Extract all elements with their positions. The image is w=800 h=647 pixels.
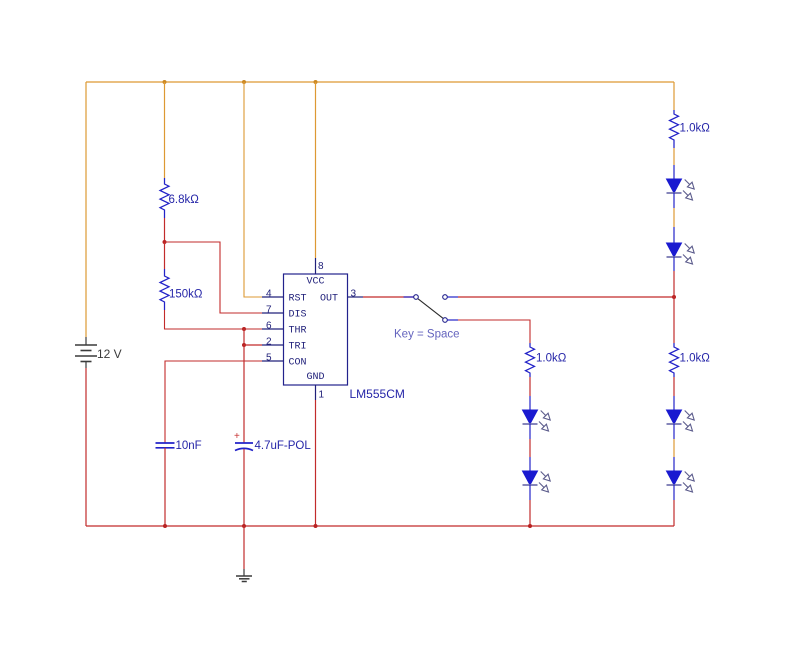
wire: RST branch vertical: [244, 82, 262, 297]
label: 150k&#937;: [169, 289, 203, 301]
wire: switch lower throw to R3 branch: [458, 320, 530, 343]
label: OUT: [320, 294, 338, 305]
wire: battery + to top rail: [85, 82, 87, 337]
junction: ground rail / LED4 chain: [528, 524, 532, 528]
wire: pin 8 branch vertical: [315, 82, 317, 258]
svg-text:+: +: [234, 431, 240, 442]
wire: node A down to R2: [164, 242, 166, 269]
svg-text:2: 2: [266, 337, 272, 348]
svg-text:GND: GND: [306, 372, 324, 383]
label: 4.7uF-POL: [255, 440, 312, 452]
svg-text:CON: CON: [289, 358, 307, 369]
svg-text:LM555CM: LM555CM: [350, 387, 405, 401]
wire: pin 1 to ground rail: [315, 400, 317, 526]
wire: C2 to ground rail: [243, 449, 245, 526]
pin 8 VCC stub: [315, 258, 317, 274]
pin number 6: [266, 321, 272, 332]
wire: LED4 to ground rail: [529, 500, 531, 526]
wire: R1 to node A: [164, 218, 166, 242]
junction: top rail / RST branch: [242, 80, 246, 84]
svg-text:5: 5: [266, 353, 272, 364]
label: VCC: [306, 277, 324, 288]
capacitor C1 10nF: [156, 443, 175, 448]
op-amp/timer U1 LM555CM body: [284, 274, 348, 385]
junction: ground rail / C1: [163, 524, 167, 528]
svg-text:TRI: TRI: [289, 342, 307, 353]
svg-text:150kΩ: 150kΩ: [169, 289, 203, 301]
pin number 5: [266, 353, 272, 364]
junction: THR / C2 branch: [242, 327, 246, 331]
svg-text:1.0kΩ: 1.0kΩ: [536, 353, 567, 365]
ground symbol: [236, 569, 252, 582]
svg-text:VCC: VCC: [306, 277, 324, 288]
svg-text:OUT: OUT: [320, 294, 338, 305]
pin 1 GND stub: [315, 385, 317, 400]
label: Key = Space: [394, 329, 460, 341]
pin 2 TRI stub: [262, 344, 284, 346]
pin number 4: [266, 289, 272, 300]
pin number 2: [266, 337, 272, 348]
LED D5: [667, 396, 695, 439]
battery V1 12V: [75, 337, 97, 368]
resistor R5 1.0k (top right): [670, 110, 679, 148]
svg-text:1.0kΩ: 1.0kΩ: [680, 123, 711, 135]
pin number 1: [319, 390, 325, 401]
label: 1.0k&#937; (R5): [680, 123, 711, 135]
wire: ground rail to ground symbol: [243, 526, 245, 569]
label: 1.0k&#937; (R3): [536, 353, 567, 365]
capacitor C2 4.7uF-POL polarized: [235, 443, 253, 451]
label: + polarity: [234, 431, 240, 442]
svg-text:1.0kΩ: 1.0kΩ: [680, 353, 711, 365]
svg-text:7: 7: [266, 305, 272, 316]
pin 3 OUT stub: [348, 296, 364, 298]
resistor R1 6.8k: [160, 178, 169, 218]
svg-text:10nF: 10nF: [176, 440, 202, 452]
wire: bottom ground rail: [86, 525, 674, 527]
wire: top rail down to R5: [673, 82, 675, 110]
svg-text:4: 4: [266, 289, 272, 300]
junction: ground rail / ground symbol: [242, 524, 246, 528]
wire: LED3 to LED4: [529, 439, 531, 457]
svg-text:8: 8: [318, 261, 324, 272]
pin 5 CON stub: [262, 360, 284, 362]
wire: OUT pin 3 to switch: [363, 296, 414, 298]
wire: THR junction to TRI junction: [243, 329, 245, 345]
wire: R5 to LED1 (orange): [673, 148, 675, 165]
wire: TRI junction down to C2: [243, 345, 245, 443]
wire: junction to R4: [673, 297, 675, 343]
switch S1 Key=Space: [404, 295, 459, 323]
junction: right column / switch: [672, 295, 676, 299]
label: THR: [289, 326, 307, 337]
wire: LED1 to LED2 (orange): [673, 208, 675, 227]
svg-text:RST: RST: [289, 294, 307, 305]
LED D6: [667, 457, 695, 500]
wire: LED6 to ground rail: [673, 500, 675, 526]
pin number 8: [318, 261, 324, 272]
pin number 3: [351, 289, 357, 300]
pin number 7: [266, 305, 272, 316]
resistor R4 1.0k (lower right): [670, 343, 679, 377]
label: LM555CM: [350, 387, 405, 401]
LED D4: [523, 457, 551, 500]
LED D1: [667, 165, 695, 208]
svg-text:DIS: DIS: [289, 310, 307, 321]
wire: switch upper throw to right column: [458, 296, 674, 298]
resistor R3 1.0k (lower left): [526, 343, 535, 377]
junction: top rail / R1 branch: [163, 80, 167, 84]
junction: node A (R1/R2/DIS): [163, 240, 167, 244]
wire: battery - down to ground rail: [85, 368, 87, 526]
svg-text:12 V: 12 V: [97, 347, 122, 361]
resistor R2 150k: [160, 269, 169, 310]
wire: CON pin 5 to C1: [165, 361, 262, 443]
wire: R4 to LED5: [673, 377, 675, 396]
label: 1.0k&#937; (R4): [680, 353, 711, 365]
label: 12 V: [97, 347, 122, 361]
wire: top rail down to R1 (6.8k): [164, 82, 166, 178]
svg-text:THR: THR: [289, 326, 307, 337]
svg-text:1: 1: [319, 390, 325, 401]
label: 10nF: [176, 440, 202, 452]
svg-text:6.8kΩ: 6.8kΩ: [169, 194, 200, 206]
svg-text:6: 6: [266, 321, 272, 332]
wire: LED5 to LED6 (orange): [673, 439, 675, 457]
wire: node A to DIS pin 7: [165, 242, 263, 313]
wire: R2 to THR pin 6: [165, 310, 263, 329]
wire: LED2 to switch junction: [673, 271, 675, 297]
wire: VCC top rail (net 1, orange): [86, 81, 674, 83]
svg-text:Key = Space: Key = Space: [394, 329, 460, 341]
pin 4 RST stub: [262, 296, 284, 298]
LED D3: [523, 396, 551, 439]
wire: R3 to LED3: [529, 377, 531, 396]
label: RST: [289, 294, 307, 305]
svg-text:4.7uF-POL: 4.7uF-POL: [255, 440, 312, 452]
label: DIS: [289, 310, 307, 321]
junction: TRI / C2 branch: [242, 343, 246, 347]
pin 6 THR stub: [262, 328, 284, 330]
wire: TRI junction to TRI pin 2: [244, 344, 262, 346]
pin 7 DIS stub: [262, 312, 284, 314]
LED D2: [667, 227, 695, 271]
wire: C1 to ground rail: [164, 448, 166, 526]
label: TRI: [289, 342, 307, 353]
svg-text:3: 3: [351, 289, 357, 300]
label: 6.8k&#937;: [169, 194, 200, 206]
label: GND: [306, 372, 324, 383]
junction: ground rail / pin 1: [314, 524, 318, 528]
junction: top rail / pin8 branch: [314, 80, 318, 84]
label: CON: [289, 358, 307, 369]
